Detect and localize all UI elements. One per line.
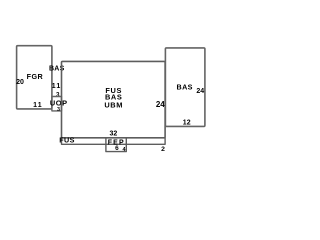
svg-text:BAS: BAS xyxy=(177,82,193,91)
svg-text:FUS: FUS xyxy=(59,135,75,144)
svg-text:FGR: FGR xyxy=(27,72,44,81)
FUS bottom strip xyxy=(62,138,166,145)
svg-text:4: 4 xyxy=(123,147,126,153)
UOP box xyxy=(52,97,62,111)
svg-text:3: 3 xyxy=(57,107,60,113)
svg-text:2: 2 xyxy=(161,146,165,153)
svg-text:11: 11 xyxy=(33,102,43,109)
FEP porch box xyxy=(106,138,126,152)
svg-text:24: 24 xyxy=(196,88,204,95)
FGR garage box xyxy=(17,46,52,109)
svg-text:UBM: UBM xyxy=(104,100,123,109)
right BAS box xyxy=(165,48,205,127)
svg-text:32: 32 xyxy=(110,131,118,138)
svg-text:BAS: BAS xyxy=(49,66,65,73)
svg-text:11: 11 xyxy=(52,83,62,90)
main house box FUS/BAS/UBM xyxy=(62,61,166,137)
svg-text:20: 20 xyxy=(16,79,24,86)
svg-text:12: 12 xyxy=(183,120,191,127)
svg-text:6: 6 xyxy=(115,145,119,152)
svg-text:3: 3 xyxy=(56,91,60,98)
svg-text:24: 24 xyxy=(156,100,165,109)
